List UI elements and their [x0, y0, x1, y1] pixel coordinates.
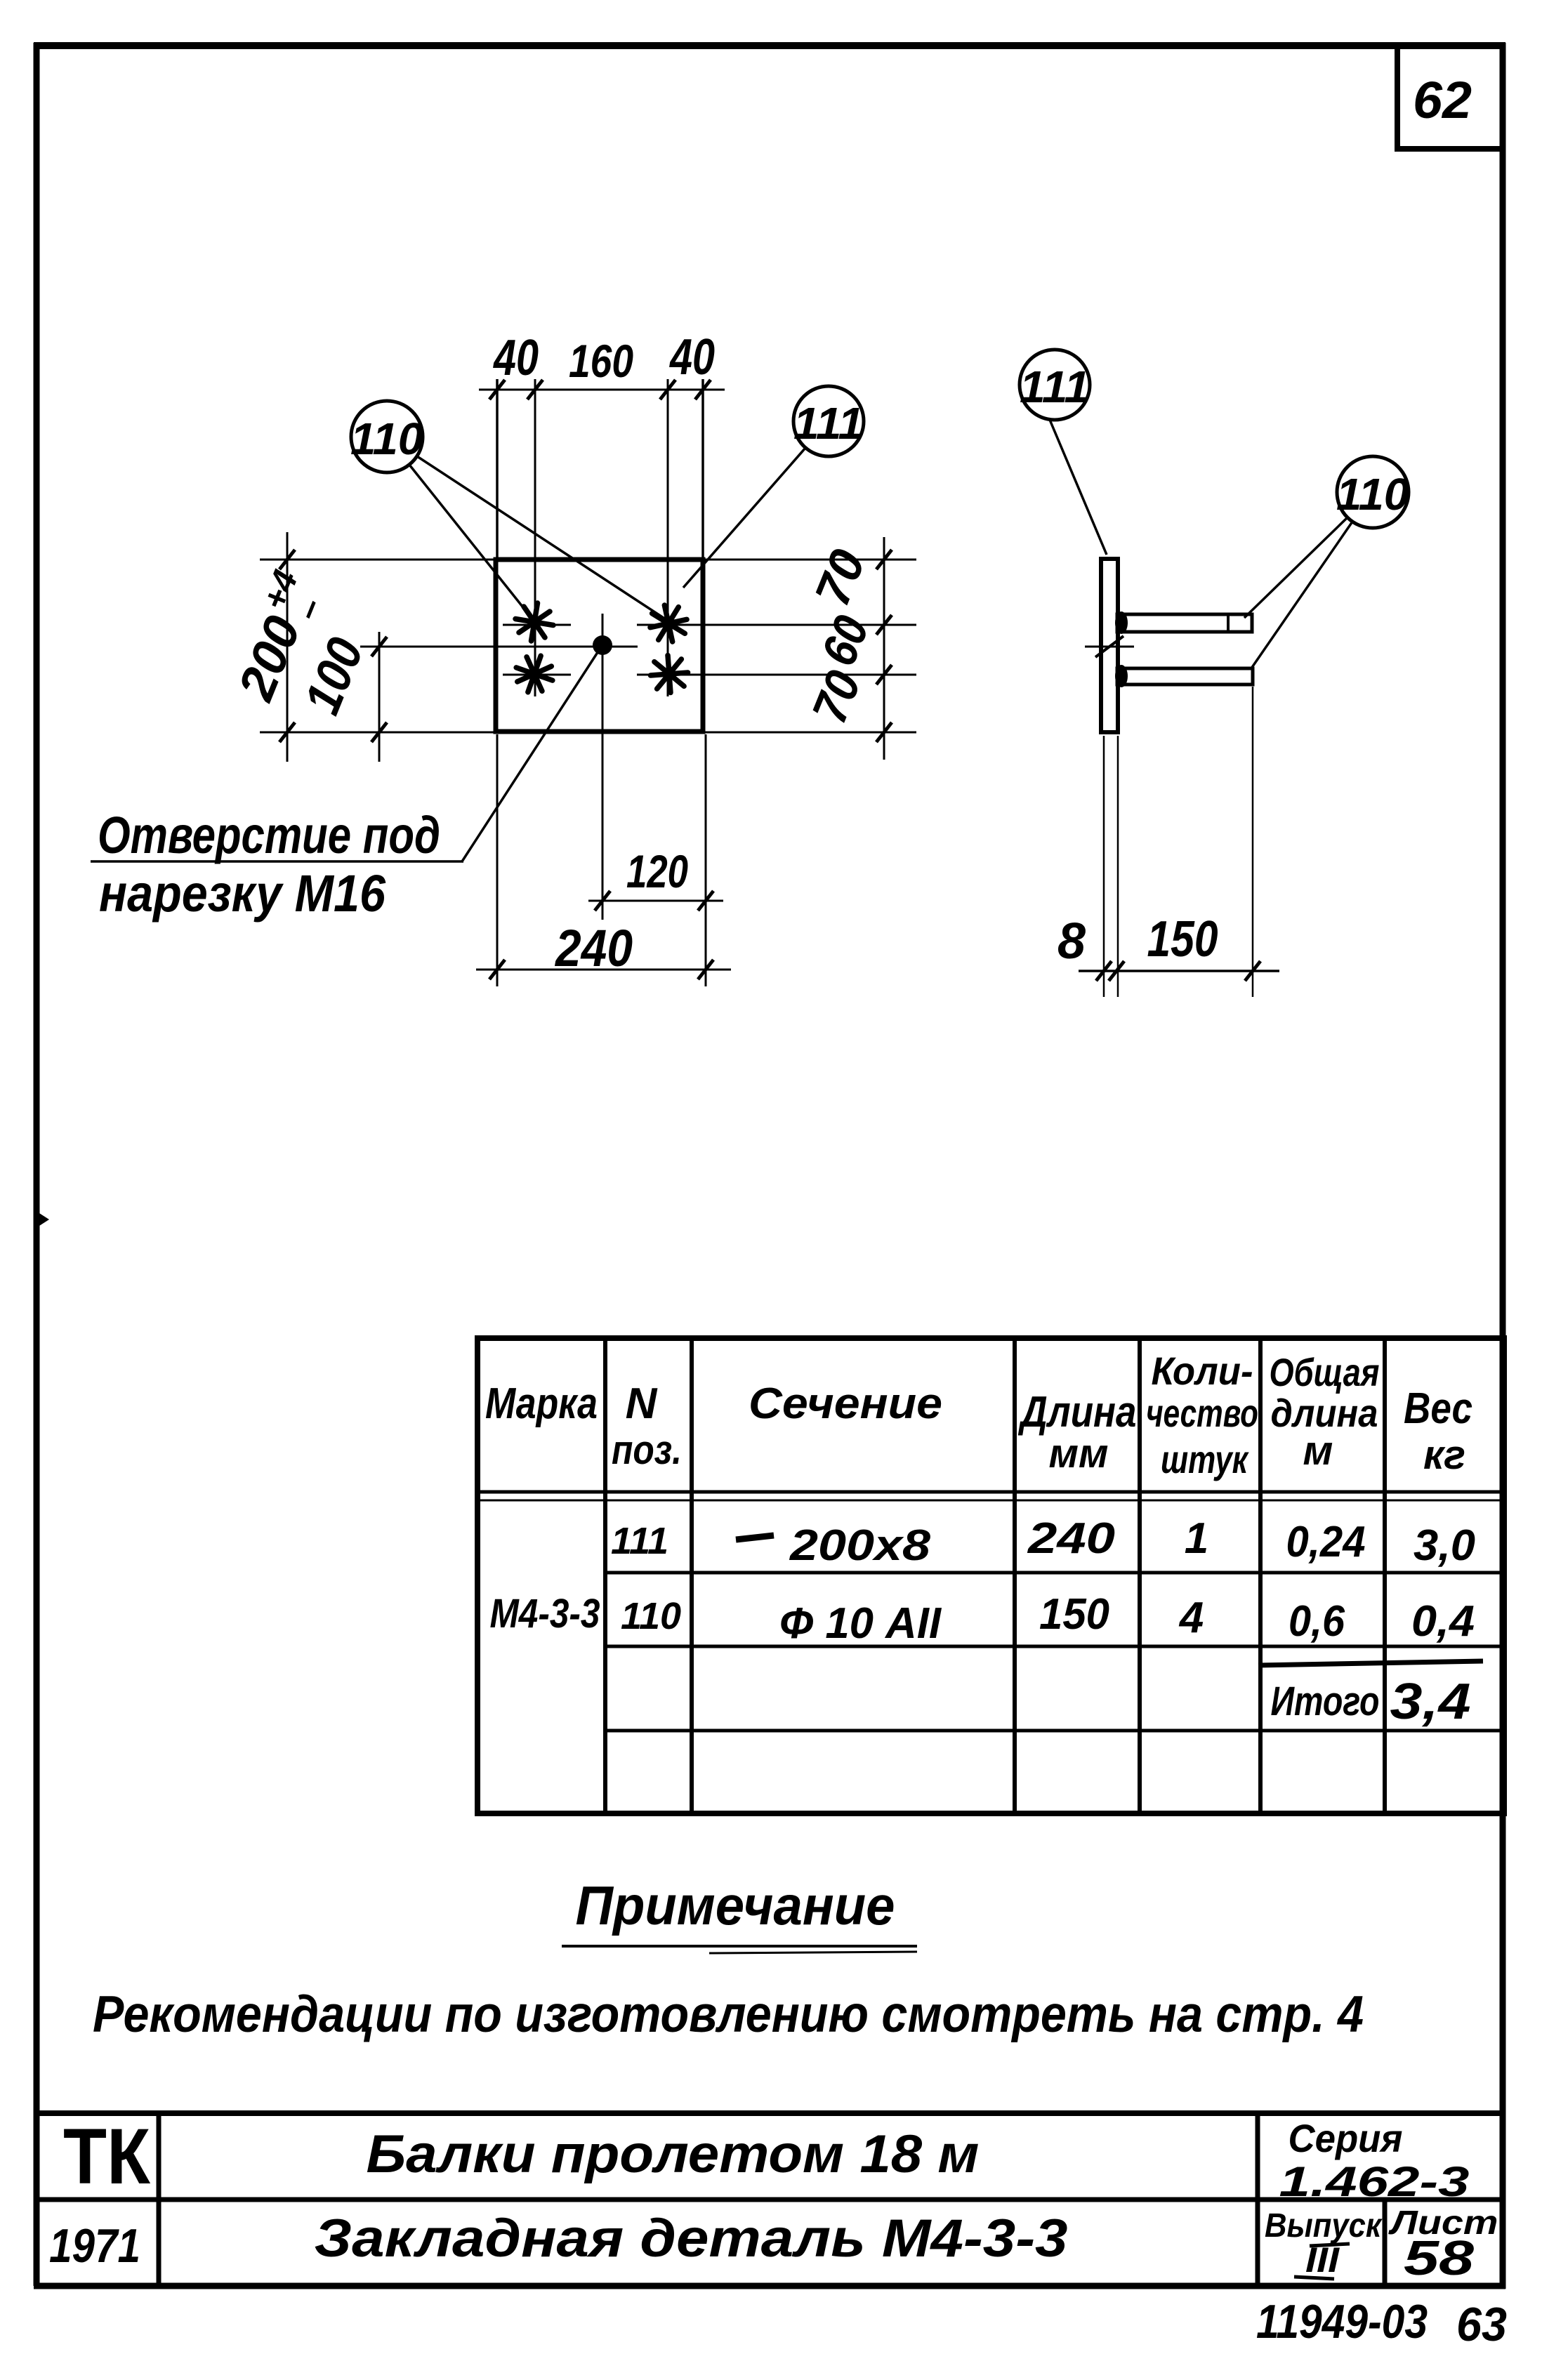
axis mark side view — [1085, 646, 1134, 648]
svg-text:111: 111 — [1020, 362, 1090, 412]
dimension line 70 60 70 — [503, 537, 916, 760]
svg-text:Закладная деталь М4-3-3: Закладная деталь М4-3-3 — [315, 2209, 1068, 2268]
svg-text:4: 4 — [1178, 1594, 1204, 1642]
dimension line 240 — [476, 734, 731, 986]
svg-text:40: 40 — [492, 330, 539, 386]
svg-text:11949-03: 11949-03 — [1256, 2295, 1428, 2348]
anchor rod 110 weld mark bottom-left — [513, 652, 557, 696]
svg-text:кг: кг — [1423, 1432, 1465, 1478]
anchor rod 110 top side view — [1115, 611, 1252, 634]
anchor rod 110 weld mark top-left — [515, 603, 553, 641]
plate M4-3-3 plan view outline — [496, 560, 703, 732]
table total row — [1258, 1661, 1483, 1730]
svg-text:1: 1 — [1185, 1514, 1208, 1563]
svg-text:чество: чество — [1146, 1391, 1258, 1435]
svg-text:150: 150 — [1147, 911, 1218, 967]
leader line hole M16 — [462, 646, 602, 861]
note heading — [562, 1875, 917, 1953]
svg-text:3,4: 3,4 — [1390, 1674, 1471, 1730]
callout circle 110 plan — [350, 401, 668, 621]
page number box 62 — [1395, 46, 1503, 149]
dimension line 100 — [294, 630, 638, 762]
table row 110 — [490, 1590, 1475, 1648]
svg-text:240: 240 — [1027, 1514, 1115, 1563]
hole M16 center dot — [593, 635, 612, 655]
svg-text:Примечание: Примечание — [576, 1875, 895, 1936]
svg-text:М4-3-3: М4-3-3 — [490, 1591, 600, 1637]
svg-text:0,24: 0,24 — [1286, 1518, 1366, 1566]
svg-text:110: 110 — [350, 414, 423, 464]
anchor rod 110 weld mark bottom-right — [643, 648, 695, 700]
callout circle 111 plan — [683, 386, 864, 588]
svg-text:Рекомендации по изготовлению с: Рекомендации по изготовлению смотреть на… — [93, 1986, 1364, 2043]
svg-text:0,6: 0,6 — [1289, 1597, 1345, 1646]
svg-text:110: 110 — [621, 1595, 681, 1637]
svg-text:Сечение: Сечение — [749, 1380, 942, 1428]
svg-text:N: N — [626, 1380, 658, 1428]
svg-text:Общая: Общая — [1270, 1350, 1380, 1394]
svg-text:63: 63 — [1456, 2298, 1507, 2351]
table header text — [485, 1349, 1472, 1481]
svg-text:240: 240 — [554, 919, 633, 977]
svg-text:Вес: Вес — [1404, 1384, 1472, 1433]
svg-text:Балки пролетом 18 м: Балки пролетом 18 м — [367, 2124, 980, 2184]
svg-text:111: 111 — [611, 1520, 668, 1562]
dimension line 40 160 40 — [479, 329, 725, 696]
dimension line 8 and 150 side view — [1057, 687, 1279, 997]
anchor rod 110 weld mark top-right — [644, 599, 693, 648]
svg-text:200x8: 200x8 — [789, 1521, 931, 1570]
svg-text:1971: 1971 — [49, 2219, 140, 2273]
svg-text:40: 40 — [668, 329, 715, 385]
callout circle 110 side view — [1244, 456, 1409, 668]
svg-text:Итого: Итого — [1271, 1679, 1380, 1724]
plate 111 side view — [1101, 559, 1118, 732]
dimension line 200+4 — [220, 532, 494, 762]
svg-text:111: 111 — [793, 398, 864, 449]
title block frame — [34, 2113, 1505, 2286]
svg-text:м: м — [1303, 1428, 1333, 1474]
svg-text:Коли-: Коли- — [1152, 1349, 1253, 1393]
svg-text:58: 58 — [1404, 2230, 1474, 2285]
svg-text:мм: мм — [1049, 1431, 1109, 1476]
svg-text:1.462-3: 1.462-3 — [1279, 2158, 1470, 2205]
svg-text:нарезку М16: нарезку М16 — [99, 864, 386, 923]
anchor rod 110 bottom side view — [1115, 665, 1253, 687]
svg-text:0,4: 0,4 — [1411, 1597, 1475, 1646]
svg-text:штук: штук — [1161, 1437, 1249, 1481]
svg-text:110: 110 — [1336, 469, 1409, 520]
svg-text:ТК: ТК — [63, 2113, 151, 2200]
dimension line 120 — [588, 656, 723, 920]
svg-text:Марка: Марка — [485, 1380, 598, 1428]
svg-text:62: 62 — [1413, 71, 1472, 129]
svg-text:Выпуск: Выпуск — [1265, 2207, 1383, 2245]
svg-text:Ф 10 АII: Ф 10 АII — [779, 1599, 942, 1648]
svg-text:150: 150 — [1039, 1590, 1109, 1639]
svg-text:Серия: Серия — [1289, 2116, 1403, 2160]
svg-text:Отверстие под: Отверстие под — [98, 806, 440, 864]
svg-text:8: 8 — [1057, 913, 1086, 970]
svg-text:Длина: Длина — [1017, 1388, 1136, 1436]
svg-text:120: 120 — [626, 845, 688, 897]
callout circle 111 side view — [1020, 350, 1107, 555]
svg-text:3,0: 3,0 — [1413, 1521, 1475, 1570]
svg-text:160: 160 — [569, 335, 633, 387]
table row 111 — [611, 1514, 1475, 1570]
svg-text:поз.: поз. — [612, 1427, 682, 1473]
materials table frame — [477, 1338, 1504, 1813]
